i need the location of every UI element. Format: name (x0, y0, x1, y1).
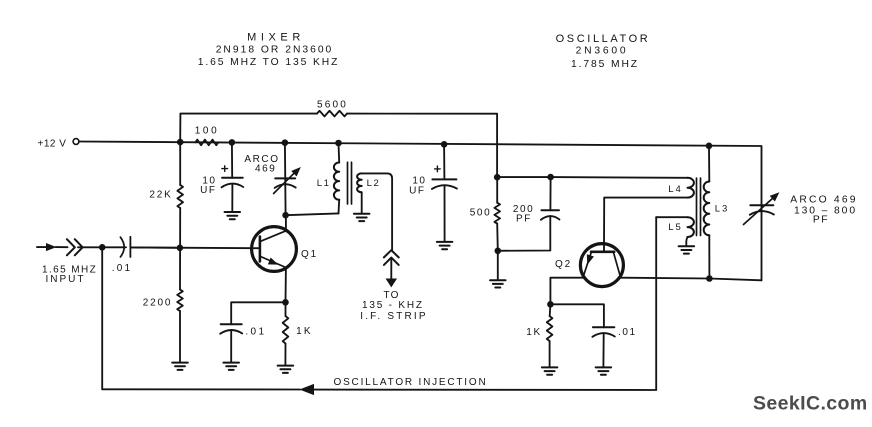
wire Q1 emitter (285, 267, 287, 302)
ground bypass cap (223, 363, 239, 370)
ground 1K oscillator (542, 367, 558, 374)
label mixer title (247, 32, 305, 44)
svg-text:1.65 MHZ TO 135 KHZ: 1.65 MHZ TO 135 KHZ (198, 57, 340, 68)
label 1K oscillator (526, 327, 541, 338)
resistor R 5600 (317, 111, 347, 117)
wire input stub (37, 246, 47, 248)
label .01 input (112, 263, 133, 274)
wire Q2 emitter (550, 278, 584, 305)
svg-text:469: 469 (255, 164, 277, 175)
arrow Q2 emitter (587, 255, 593, 264)
label Q1 (301, 249, 318, 260)
label oscillator frequency (571, 59, 639, 70)
transistor Q1 collector stroke (261, 231, 286, 242)
wire bias to 2200 (179, 248, 181, 290)
wire 200PF top (549, 177, 551, 210)
wire L3 to bottom junction (708, 235, 710, 278)
chevrons input (67, 239, 83, 255)
wire chevrons to injection node (78, 246, 102, 248)
svg-text:L1: L1 (317, 178, 331, 189)
wire rail to 10UF2 (443, 144, 445, 179)
arrow ARCO 469 mixer (274, 168, 301, 194)
resistor R 1K mixer (283, 316, 289, 344)
wire 500 to ground (497, 251, 499, 280)
svg-text:PF: PF (813, 215, 829, 226)
svg-text:Q1: Q1 (301, 249, 318, 260)
svg-text:.01: .01 (618, 327, 637, 338)
node osc supply junction (494, 174, 501, 181)
wire Q2 emitter junction to cap (550, 304, 604, 327)
wire L2 top to IF output (362, 173, 392, 250)
svg-text:2N3600: 2N3600 (576, 46, 629, 57)
svg-text:.01: .01 (112, 263, 133, 274)
wire Q2 1K top (549, 304, 552, 316)
svg-text:+12 V: +12 V (38, 139, 67, 150)
wire L5 to ground (686, 237, 687, 246)
label 500 (470, 208, 492, 219)
svg-text:5600: 5600 (317, 100, 348, 111)
wire L2 bottom to ground (361, 192, 363, 213)
label 2200 (143, 298, 172, 309)
wire rail to L1 coil (338, 143, 341, 163)
capacitor C 10UF2 (432, 179, 457, 189)
arrow injection (300, 384, 314, 394)
label 10 UF (200, 176, 216, 197)
inductor L3 (704, 182, 710, 236)
label 1K mixer (296, 326, 313, 337)
wire bypass cap to ground (230, 331, 232, 363)
capacitor C 10UF plus sign (222, 166, 228, 172)
wire 22K branch (179, 142, 181, 185)
svg-text:OSCILLATOR: OSCILLATOR (556, 33, 651, 45)
capacitor C .01 input (120, 237, 130, 257)
wire rail to ARCO 469 (284, 143, 287, 216)
node rail-bias junction (177, 139, 184, 146)
label OSCILLATOR INJECTION (334, 377, 488, 388)
inductor L5 (688, 217, 694, 237)
wire input to chevrons (56, 246, 68, 248)
capacitor C ARCO 469 mixer (275, 178, 296, 188)
node rail-10UF2 junction (441, 141, 448, 148)
svg-text:.01: .01 (245, 327, 266, 338)
node rail-L3 junction (706, 143, 713, 150)
inductor L4 (688, 178, 694, 198)
wire 5600 branch right (347, 114, 497, 178)
node tank bottom junction (706, 275, 713, 282)
wire Q2 collector to tank (619, 278, 761, 281)
wire injection drop (102, 247, 300, 389)
node input-bias junction (177, 245, 184, 252)
arrow input (46, 244, 55, 251)
label 100 (195, 126, 220, 137)
label I.F. STRIP (360, 311, 428, 322)
label mixer frequencies (198, 57, 340, 68)
label 10 UF 2 (409, 176, 426, 197)
logo SeekIC.com (753, 393, 868, 415)
label L4 (668, 184, 683, 195)
wire osc supply to L4 (497, 176, 687, 179)
node input-injection junction (99, 244, 106, 251)
wire L5 top (656, 216, 687, 218)
node 500 bottom junction (495, 248, 502, 255)
label 135-KHZ (362, 300, 424, 311)
svg-text:L5: L5 (668, 222, 683, 233)
resistor R 22K (177, 185, 183, 208)
ground 10UF (225, 212, 241, 219)
resistor R 100 (195, 140, 218, 146)
transistor Q1 emitter stroke (261, 257, 286, 268)
svg-text:22K: 22K (149, 190, 172, 201)
svg-text:L4: L4 (668, 184, 683, 195)
label L1 (317, 178, 331, 189)
arrow Q1 emitter (268, 258, 277, 264)
label .01 mixer emitter (245, 327, 266, 338)
svg-text:I.F. STRIP: I.F. STRIP (360, 311, 428, 322)
node rail-L1 junction (335, 140, 342, 147)
arrow ARCO 469 oscillator (744, 193, 779, 225)
label ARCO 469 oscillator (790, 195, 857, 226)
wire 22K to input line (179, 208, 181, 248)
svg-text:1.785 MHZ: 1.785 MHZ (571, 59, 639, 70)
svg-text:1K: 1K (526, 327, 541, 338)
ground 1K mixer (278, 366, 294, 373)
label 22K (149, 190, 172, 201)
core mixer transformer (348, 162, 352, 204)
wire coupling cap to base (130, 246, 180, 248)
label +12 V (38, 139, 67, 150)
resistor R 1K oscillator (547, 316, 553, 341)
ground 500 (490, 280, 506, 287)
label oscillator title (556, 33, 651, 45)
ground 10UF2 (437, 242, 453, 249)
svg-text:135 - KHZ: 135 - KHZ (362, 300, 424, 311)
inductor L1 (334, 163, 339, 200)
wire osc supply to 500 (496, 177, 498, 203)
transistor Q2 circle (580, 244, 623, 287)
wire 2200 to ground (179, 311, 181, 363)
wire IF output stub (390, 260, 392, 280)
svg-text:L3: L3 (715, 203, 730, 214)
label TO (383, 290, 399, 301)
transistor Q2 collector stroke (614, 252, 621, 277)
node rail-ARCO junction (282, 139, 289, 146)
label L5 (668, 222, 683, 233)
wire 200PF bottom (498, 216, 551, 251)
ground 2200 (172, 363, 188, 370)
capacitor C .01 oscillator (592, 327, 614, 337)
ground L5 (679, 246, 695, 253)
wire Q1 base (130, 246, 259, 249)
svg-text:SeekIC.com: SeekIC.com (753, 393, 868, 415)
wire 5600 branch left (180, 114, 317, 143)
wire Q2 1K to ground (549, 341, 551, 367)
label .01 oscillator (618, 327, 637, 338)
wire +12V rail (79, 142, 762, 206)
svg-text:2N918 OR 2N3600: 2N918 OR 2N3600 (216, 45, 334, 56)
svg-text:UF: UF (200, 185, 216, 196)
ground L2 (354, 214, 370, 221)
wire 1K to ground (284, 344, 286, 366)
wire rail to 10UF cap (231, 142, 233, 177)
wire Q1 collector (285, 215, 287, 231)
arrow IF output (386, 279, 396, 287)
node 200PF junction (547, 174, 554, 181)
label ARCO 469 mixer (244, 154, 279, 175)
wire L4 bottom to Q2 base (604, 198, 688, 251)
wire 10UF to ground (231, 184, 233, 212)
svg-text:ARCO 469: ARCO 469 (790, 195, 857, 206)
wire injection run (314, 217, 657, 390)
svg-text:500: 500 (470, 208, 492, 219)
wire emitter junction to bypass cap (231, 302, 285, 324)
label L2 (367, 178, 381, 189)
label oscillator transistor (576, 46, 629, 57)
svg-text:2200: 2200 (143, 298, 172, 309)
svg-text:L2: L2 (367, 178, 381, 189)
node rail-10UF junction (229, 139, 236, 146)
label L3 (715, 203, 730, 214)
svg-text:UF: UF (409, 185, 425, 196)
transistor Q2 emitter stroke (583, 252, 591, 276)
capacitor C 10UF2 plus sign (435, 166, 441, 172)
node collector junction (282, 212, 289, 219)
transistor Q2 base bar (591, 251, 614, 254)
terminal +12V (73, 139, 79, 145)
svg-text:INPUT: INPUT (46, 274, 86, 285)
wire collector junction to L1 (286, 213, 339, 215)
transistor Q1 base bar (259, 237, 262, 262)
label INPUT (46, 274, 86, 285)
capacitor C 10UF (222, 178, 244, 188)
transistor Q1 circle (252, 227, 297, 272)
wire rail to L3 (708, 146, 710, 182)
svg-text:100: 100 (195, 126, 220, 137)
chevrons IF output (384, 250, 399, 265)
wire 10UF2 to ground (444, 186, 446, 242)
resistor R 500 (494, 203, 500, 224)
svg-text:Q2: Q2 (555, 259, 572, 270)
svg-text:MIXER: MIXER (247, 32, 305, 44)
label Q2 (555, 259, 572, 270)
label mixer transistors (216, 45, 334, 56)
inductor L2 (357, 173, 362, 192)
label 1.65 MHZ (42, 265, 97, 276)
wire 500 to bottom node (496, 224, 499, 251)
capacitor C ARCO 469 oscillator (750, 205, 774, 215)
label 5600 (317, 100, 348, 111)
node Q2 emitter junction (547, 301, 554, 308)
label 200 PF (513, 204, 535, 225)
wire Q2 cap to ground (602, 334, 604, 368)
wire L1 coil to tank (338, 200, 341, 214)
wire ARCO2 vertical (761, 205, 763, 280)
capacitor C 200PF (541, 210, 560, 220)
node Q1 emitter junction (282, 299, 289, 306)
svg-text:OSCILLATOR INJECTION: OSCILLATOR INJECTION (334, 377, 488, 388)
svg-text:PF: PF (516, 214, 532, 225)
wire emitter junction to 1K (285, 302, 287, 316)
wire injection node to coupling cap (102, 246, 126, 248)
capacitor C .01 mixer emitter (220, 324, 242, 334)
svg-text:1K: 1K (296, 326, 313, 337)
ground .01 oscillator (596, 367, 612, 374)
core oscillator transformer (697, 178, 701, 235)
resistor R 2200 (177, 290, 183, 312)
